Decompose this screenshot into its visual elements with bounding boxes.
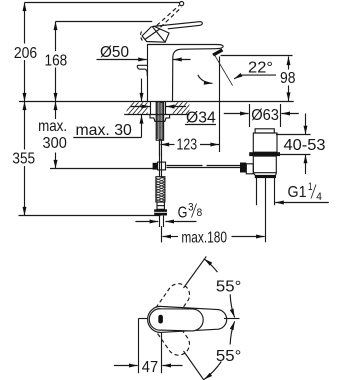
dome inner line 1 <box>153 27 165 42</box>
arc upper 55 <box>230 294 234 317</box>
popup waste top knob <box>255 129 274 133</box>
svg-text:3: 3 <box>188 202 194 214</box>
braided hose <box>155 172 165 206</box>
popup waste flange dark <box>249 152 280 156</box>
hose fitting collar <box>157 202 164 209</box>
handle button dark <box>158 315 163 324</box>
svg-text:4: 4 <box>316 191 322 203</box>
dim 206 vertical line <box>24 3 26 44</box>
wire reference line 168 level <box>56 21 153 23</box>
popup waste mid body <box>253 156 276 173</box>
shank sleeve lines <box>150 102 152 115</box>
rod coupler cross <box>153 163 158 170</box>
connection tube below shank <box>159 140 161 177</box>
nozzle axis 22 deg line <box>214 55 232 86</box>
faucet body outline <box>148 45 224 102</box>
handle outer outline <box>148 306 227 332</box>
svg-text:98: 98 <box>280 70 296 87</box>
svg-text:123: 123 <box>177 137 198 154</box>
svg-text:47: 47 <box>142 359 158 376</box>
hose fitting nut dark <box>154 209 167 215</box>
svg-text:40-53: 40-53 <box>284 137 326 154</box>
faucet side hook detail <box>137 65 148 76</box>
dim 168 vertical line <box>55 22 57 52</box>
svg-text:Ø50: Ø50 <box>100 44 129 61</box>
svg-text:G1: G1 <box>288 184 307 201</box>
popup taper <box>253 173 276 176</box>
popup waste knurled nut <box>240 163 246 173</box>
svg-text:168: 168 <box>45 52 68 69</box>
svg-text:8: 8 <box>197 207 203 219</box>
svg-text:max.180: max.180 <box>181 230 227 247</box>
dim G38 arrows <box>135 221 158 223</box>
popup dark band <box>255 175 276 178</box>
svg-text:206: 206 <box>14 45 37 62</box>
flow arc arrow <box>198 75 213 84</box>
dim max300 vertical line <box>55 102 57 120</box>
dim 47 <box>138 319 140 374</box>
dashed rotated handle upper <box>146 279 194 334</box>
dim 123 <box>159 139 161 156</box>
dim max30 arrows <box>141 115 143 138</box>
popup waste upper body <box>253 133 277 152</box>
nozzle aerator dark band <box>212 49 223 57</box>
node knob circle at dashed lever tip <box>180 2 184 6</box>
dim 355 vertical line <box>24 102 26 150</box>
nub line <box>139 318 149 320</box>
svg-text:355: 355 <box>12 150 35 167</box>
dim D63 <box>249 104 251 127</box>
hatch right counter block <box>168 100 198 114</box>
svg-text:G: G <box>178 205 188 222</box>
handle grip inner stadium <box>149 309 203 331</box>
lower ext line along 55 <box>184 351 204 380</box>
dome inner line 2 <box>145 29 160 40</box>
svg-text:Ø63: Ø63 <box>251 107 279 124</box>
dim 40-53 <box>276 134 311 136</box>
wire ref line max300 bottom <box>50 168 154 170</box>
dim D50 right arrow <box>173 59 190 61</box>
wire counter top line <box>19 101 294 103</box>
hatch left counter block <box>124 100 159 114</box>
lever handle solid <box>152 22 202 29</box>
dashed raised lever line 1 <box>157 5 180 25</box>
svg-text:max.: max. <box>38 118 67 135</box>
dashed raised lever line 2 <box>161 7 182 27</box>
popup waste side port <box>246 164 253 174</box>
svg-text:22°: 22° <box>248 60 273 77</box>
upper ext line along 55 <box>184 256 207 288</box>
arc lower 55 <box>230 321 234 344</box>
leader 22deg underline and arrow <box>234 75 276 79</box>
threaded rod <box>156 99 164 143</box>
svg-text:55°: 55° <box>216 278 241 295</box>
dashed butt arc <box>141 32 143 41</box>
cartridge dome <box>142 26 169 42</box>
dim 98 <box>221 55 293 57</box>
popup tailpipe <box>256 178 258 205</box>
dim max180 <box>161 226 163 242</box>
mounting washer and nut <box>150 115 170 122</box>
g38 pipe <box>159 216 161 227</box>
dim D34 arrows <box>131 106 151 108</box>
wire ref line 355 bottom <box>19 215 161 217</box>
svg-text:1: 1 <box>308 181 313 193</box>
wire counter bottom line <box>124 114 189 116</box>
svg-text:55°: 55° <box>216 348 241 365</box>
svg-text:max. 30: max. 30 <box>76 122 132 139</box>
popup center axis line <box>265 178 267 242</box>
wire top reference line 206 level <box>25 2 181 4</box>
dashed rotated handle lower <box>146 305 194 360</box>
pull rod lines <box>167 165 203 167</box>
svg-text:300: 300 <box>43 135 67 152</box>
centerline right <box>224 318 240 320</box>
